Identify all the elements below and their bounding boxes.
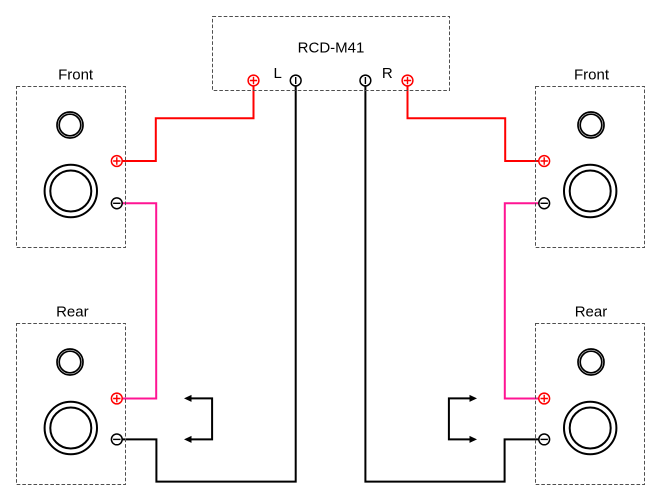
terminal amp L-	[290, 75, 301, 86]
speaker front-right woofer	[564, 165, 616, 217]
terminal front-left -	[111, 198, 122, 209]
wire red right (amp R+ to front-right speaker +)	[408, 86, 539, 161]
svg-text:Front: Front	[58, 66, 94, 83]
svg-text:Rear: Rear	[575, 303, 608, 320]
speaker rear-right box	[536, 303, 645, 484]
terminal rear-left +	[111, 393, 122, 404]
svg-text:R: R	[382, 65, 393, 82]
terminal rear-left -	[111, 434, 122, 445]
speaker front-left box	[17, 66, 126, 247]
terminal amp R+	[402, 75, 413, 86]
speaker front-left tweeter	[57, 112, 83, 138]
wire black right (rear-right speaker - to amp R-)	[365, 86, 538, 482]
wire magenta right (front-right speaker - to rear-right speaker +)	[505, 203, 539, 398]
speaker rear-right tweeter	[578, 349, 604, 375]
svg-text:RCD-M41: RCD-M41	[298, 40, 365, 57]
jumper arrows right	[449, 395, 477, 443]
svg-text:L: L	[274, 65, 282, 82]
svg-text:Rear: Rear	[56, 303, 89, 320]
wire red left (amp L+ to front-left speaker +)	[122, 86, 253, 161]
terminal front-left +	[111, 156, 122, 167]
terminal amp R-	[360, 75, 371, 86]
jumper arrows left	[184, 395, 212, 443]
terminal front-right -	[539, 198, 550, 209]
terminal front-right +	[539, 156, 550, 167]
amplifier RCD-M41 box	[213, 17, 450, 91]
speaker rear-left box	[17, 303, 126, 484]
wire magenta left (front-left speaker - to rear-left speaker +)	[122, 203, 156, 398]
terminal rear-right -	[539, 434, 550, 445]
speaker front-right tweeter	[578, 112, 604, 138]
wire black left (rear-left speaker - to amp L-)	[122, 86, 296, 482]
terminal amp L+	[248, 75, 259, 86]
terminal rear-right +	[539, 393, 550, 404]
speaker front-left woofer	[45, 165, 97, 217]
speaker rear-left woofer	[45, 402, 97, 454]
speaker front-right box	[536, 66, 645, 247]
speaker rear-left tweeter	[57, 349, 83, 375]
speaker rear-right woofer	[564, 402, 616, 454]
svg-text:Front: Front	[574, 66, 610, 83]
